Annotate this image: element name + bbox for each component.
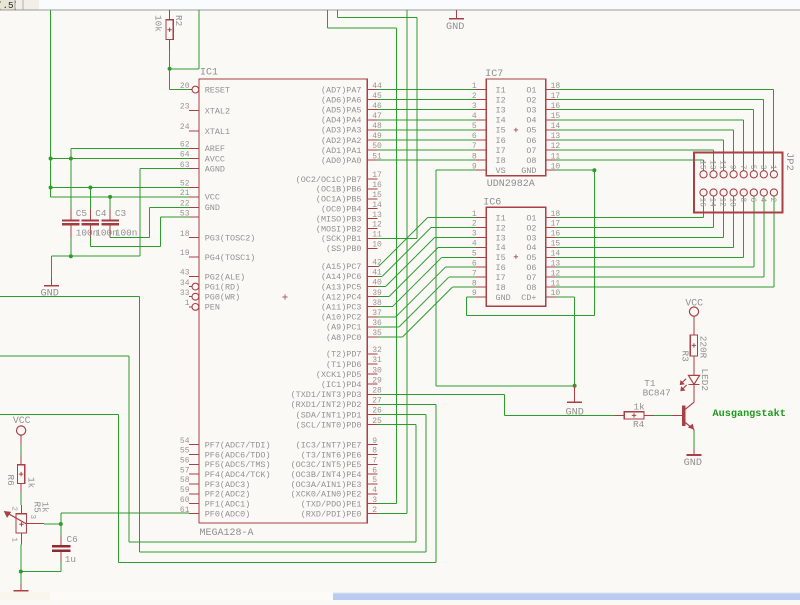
resistor R4 1k: [615, 414, 625, 416]
svg-text:(A15)PC7: (A15)PC7: [321, 262, 362, 272]
svg-text:(AD1)PA1: (AD1)PA1: [321, 146, 362, 156]
connector JP2 box: [694, 153, 782, 213]
wire VCC row52 horizontal: [51, 187, 189, 189]
transistor T1 BC847: [693, 390, 695, 402]
svg-text:45: 45: [372, 92, 382, 101]
svg-text:8: 8: [472, 152, 477, 161]
svg-text:18: 18: [551, 210, 561, 219]
svg-text:R6: R6: [5, 475, 16, 487]
svg-text:6: 6: [472, 259, 477, 268]
svg-text:63: 63: [180, 161, 190, 170]
svg-text:CD+: CD+: [521, 293, 536, 303]
R5 adjust arrow: [8, 514, 26, 524]
IC IC1 MEGA128-A box: [199, 79, 367, 523]
svg-text:18: 18: [551, 82, 561, 91]
svg-text:(OC0)PB4: (OC0)PB4: [321, 205, 362, 215]
svg-text:GND: GND: [41, 289, 59, 300]
svg-text:Ausgangstakt: Ausgangstakt: [713, 408, 786, 420]
svg-text:IC1: IC1: [200, 68, 218, 79]
svg-text:10k: 10k: [153, 15, 164, 32]
wire AGND to ground rail: [140, 168, 189, 170]
svg-text:3: 3: [758, 165, 766, 170]
svg-text:8: 8: [372, 447, 377, 456]
wire T1 emitter to GND: [693, 432, 695, 449]
IC IC6 UDN2982A box: [486, 207, 545, 306]
svg-text:42: 42: [372, 259, 382, 268]
svg-text:16: 16: [551, 102, 561, 111]
capacitor C4 100n: [89, 209, 91, 220]
svg-text:PG0(WR): PG0(WR): [205, 293, 240, 303]
svg-text:11: 11: [718, 160, 726, 170]
svg-text:7: 7: [472, 269, 477, 278]
wire CD+ to mid GND: [556, 296, 575, 298]
svg-text:44: 44: [372, 82, 382, 91]
svg-text:10: 10: [728, 198, 736, 208]
svg-text:(XCK0/AIN0)PE2: (XCK0/AIN0)PE2: [291, 490, 362, 500]
svg-text:35: 35: [372, 329, 382, 338]
svg-text:(SDA/INT1)PD1: (SDA/INT1)PD1: [296, 410, 362, 420]
svg-text:(TXD/PDO)PE1: (TXD/PDO)PE1: [301, 500, 362, 510]
wire PC bus fan to IC6 inputs: [377, 265, 379, 267]
capacitor C3 100n: [109, 209, 111, 220]
svg-text:48: 48: [372, 122, 382, 131]
R5 wiper pin: [27, 523, 44, 525]
wire C6 bottom to GND: [60, 561, 62, 571]
svg-text:I8: I8: [496, 156, 506, 166]
wire GND pin22 jog to C3 bottom: [150, 206, 189, 208]
svg-text:XTAL2: XTAL2: [205, 106, 230, 116]
svg-text:GND: GND: [684, 458, 702, 469]
svg-text:28: 28: [372, 387, 382, 396]
svg-text:I7: I7: [496, 146, 506, 156]
svg-text:16: 16: [551, 230, 561, 239]
svg-text:(XCK1)PD5: (XCK1)PD5: [316, 370, 362, 380]
svg-text:(OC3A/AIN1)PE3: (OC3A/AIN1)PE3: [291, 480, 362, 490]
svg-text:36: 36: [372, 319, 382, 328]
svg-text:17: 17: [551, 92, 561, 101]
svg-text:15: 15: [372, 191, 382, 200]
svg-text:23: 23: [180, 103, 190, 112]
svg-text:3: 3: [372, 496, 377, 505]
svg-text:O6: O6: [526, 263, 536, 273]
wire VCC rail vertical from top: [50, 10, 52, 197]
svg-text:(T3/INT6)PE6: (T3/INT6)PE6: [301, 450, 362, 460]
svg-text:(A12)PC4: (A12)PC4: [321, 292, 362, 302]
ground below T1: [693, 448, 695, 455]
svg-text:VCC: VCC: [13, 415, 31, 426]
svg-text:I7: I7: [496, 273, 506, 283]
svg-text:16: 16: [698, 198, 706, 208]
svg-text:GND: GND: [496, 293, 511, 303]
svg-text:PG1(RD): PG1(RD): [205, 282, 240, 292]
svg-text:I5: I5: [496, 253, 506, 263]
svg-text:C4: C4: [95, 208, 107, 219]
svg-text:GND: GND: [446, 22, 464, 33]
svg-text:1k: 1k: [40, 502, 51, 514]
svg-text:13: 13: [551, 259, 561, 268]
svg-text:R4: R4: [633, 419, 645, 430]
svg-text:O7: O7: [526, 146, 536, 156]
svg-text:PF5(ADC5/TMS): PF5(ADC5/TMS): [205, 460, 271, 470]
svg-text:1: 1: [185, 299, 190, 308]
svg-text:7: 7: [372, 457, 377, 466]
svg-text:R2: R2: [173, 15, 184, 26]
svg-text:O5: O5: [526, 126, 536, 136]
node IC7 GND junction: [592, 168, 596, 172]
svg-text:26: 26: [372, 407, 382, 416]
svg-text:(SS)PB0: (SS)PB0: [326, 244, 361, 254]
svg-text:I2: I2: [496, 223, 506, 233]
bottom strip: [0, 592, 800, 600]
svg-text:R3: R3: [679, 351, 690, 363]
wire pin53 jog to C4 bottom: [160, 216, 189, 218]
node RESET junction: [168, 67, 172, 71]
svg-text:O4: O4: [526, 243, 536, 253]
svg-text:1: 1: [472, 210, 477, 219]
wire PE1 net to top: [377, 503, 396, 505]
resistor R2 10k: [169, 10, 171, 20]
svg-text:8: 8: [472, 279, 477, 288]
svg-text:14: 14: [551, 250, 561, 259]
svg-text:27: 27: [372, 397, 382, 406]
svg-text:I3: I3: [496, 106, 506, 116]
svg-text:51: 51: [372, 152, 382, 161]
svg-text:6: 6: [372, 466, 377, 475]
svg-text:(TXD1/INT3)PD3: (TXD1/INT3)PD3: [291, 390, 362, 400]
svg-text:41: 41: [372, 269, 382, 278]
svg-text:(A8)PC0: (A8)PC0: [326, 333, 361, 343]
svg-text:220R: 220R: [697, 336, 708, 359]
svg-text:4: 4: [472, 240, 477, 249]
svg-text:(T2)PD7: (T2)PD7: [326, 350, 361, 360]
toolbar bottom edge line: [0, 9, 800, 11]
svg-text:2: 2: [768, 198, 776, 203]
svg-text:57: 57: [180, 466, 190, 475]
wire C5 top drop: [70, 159, 72, 210]
svg-text:12: 12: [372, 221, 382, 230]
svg-text:(AD2)PA2: (AD2)PA2: [321, 136, 362, 146]
wire IC7 O8 to JP2 pin15: [556, 159, 704, 161]
LED2 emission arrows: [680, 379, 686, 385]
wire IC7 outputs to JP2 top pins: [556, 89, 774, 91]
svg-text:13: 13: [372, 211, 382, 220]
svg-text:9: 9: [472, 289, 477, 298]
resistor R6 1k: [20, 455, 22, 465]
svg-text:40: 40: [372, 279, 382, 288]
svg-text:46: 46: [372, 102, 382, 111]
svg-text:O1: O1: [526, 85, 536, 95]
wire PD2 loop to left edge: [377, 403, 436, 405]
svg-text:PF2(ADC2): PF2(ADC2): [205, 490, 251, 500]
svg-text:O1: O1: [526, 213, 536, 223]
svg-text:PF4(ADC4/TCK): PF4(ADC4/TCK): [205, 470, 271, 480]
capacitor C5 100n: [70, 209, 72, 220]
wire R5 pin1 down: [20, 544, 22, 571]
wire VCC to R6: [20, 445, 22, 455]
svg-text:(OC1B)PB6: (OC1B)PB6: [316, 185, 362, 195]
svg-text:(A10)PC2: (A10)PC2: [321, 313, 362, 323]
svg-text:(IC1)PD4: (IC1)PD4: [321, 380, 362, 390]
svg-text:16: 16: [372, 181, 382, 190]
IC IC7 UDN2982A box: [486, 79, 545, 176]
IC1 left pins: [189, 89, 192, 91]
ground mid below IC6: [574, 386, 576, 403]
svg-text:38: 38: [372, 299, 382, 308]
wire junction to GND symbol: [20, 572, 22, 585]
svg-text:3: 3: [472, 230, 477, 239]
wire PD0 loop to left edge: [377, 424, 415, 426]
svg-text:60: 60: [180, 496, 190, 505]
svg-text:(RXD1/INT2)PD2: (RXD1/INT2)PD2: [291, 400, 362, 410]
svg-text:(A14)PC6: (A14)PC6: [321, 272, 362, 282]
wire PB1 SCK net to top: [377, 237, 417, 239]
ground bottom left: [20, 584, 22, 591]
svg-text:53: 53: [180, 209, 190, 218]
wire R6 to R5: [20, 493, 22, 505]
svg-text:2: 2: [10, 507, 18, 512]
svg-text:4: 4: [372, 486, 377, 495]
svg-text:2: 2: [472, 92, 477, 101]
svg-text:10: 10: [372, 241, 382, 250]
svg-text:7: 7: [738, 165, 746, 170]
wire AREF jog: [71, 147, 189, 149]
svg-text:2: 2: [372, 506, 377, 515]
svg-text:(SCL/INT0)PD0: (SCL/INT0)PD0: [296, 420, 362, 430]
svg-text:I1: I1: [496, 213, 506, 223]
svg-text:11: 11: [551, 279, 561, 288]
svg-text:(AD3)PA3: (AD3)PA3: [321, 126, 362, 136]
node VCC junctions: [49, 157, 53, 161]
svg-text:(AD0)PA0: (AD0)PA0: [321, 156, 362, 166]
svg-text:11: 11: [551, 152, 561, 161]
svg-text:24: 24: [180, 123, 190, 132]
svg-text:10: 10: [551, 162, 561, 171]
svg-text:14: 14: [372, 201, 382, 210]
svg-text:(T1)PD6: (T1)PD6: [326, 360, 361, 370]
svg-text:15: 15: [551, 112, 561, 121]
svg-text:62: 62: [180, 141, 190, 150]
svg-text:100n: 100n: [115, 228, 138, 239]
toolbar fragment top-left: [0, 0, 800, 10]
wire IC6 GND loop to IC7 GND: [466, 296, 476, 298]
svg-text:PG3(TOSC2): PG3(TOSC2): [205, 234, 256, 244]
svg-text:3: 3: [28, 515, 36, 520]
svg-text:AREF: AREF: [205, 144, 225, 154]
svg-text:59: 59: [180, 486, 190, 495]
svg-text:50: 50: [372, 142, 382, 151]
svg-text:11: 11: [372, 231, 382, 240]
potentiometer R5 1k: [20, 505, 22, 514]
svg-text:61: 61: [180, 506, 190, 515]
svg-text:(SCK)PB1: (SCK)PB1: [321, 234, 362, 244]
wire PD3 to R4 base net: [377, 393, 504, 395]
wire C4 bottom stub: [89, 237, 91, 246]
svg-text:GND: GND: [205, 203, 220, 213]
svg-text:13: 13: [551, 132, 561, 141]
svg-text:C6: C6: [67, 534, 79, 545]
svg-text:34: 34: [180, 279, 190, 288]
svg-text:13: 13: [708, 160, 716, 170]
svg-text:O8: O8: [526, 283, 536, 293]
svg-text:5: 5: [748, 165, 756, 170]
svg-text:39: 39: [372, 289, 382, 298]
svg-text:PF6(ADC6/TDO): PF6(ADC6/TDO): [205, 450, 271, 460]
wire R4 to T1 base: [654, 414, 673, 416]
svg-text:I6: I6: [496, 263, 506, 273]
wire PE0 net to top: [377, 513, 407, 515]
svg-text:32: 32: [372, 346, 382, 355]
svg-text:I1: I1: [496, 85, 506, 95]
svg-text:8: 8: [738, 198, 746, 203]
svg-text:31: 31: [372, 356, 382, 365]
wire PA0-PA7 bus to IC7 inputs: [377, 89, 476, 91]
svg-text:7: 7: [472, 142, 477, 151]
svg-text:10: 10: [551, 289, 561, 298]
svg-text:O8: O8: [526, 156, 536, 166]
wire ground rail drop to GND symbol: [51, 256, 53, 278]
svg-text:C5: C5: [76, 208, 88, 219]
svg-text:AVCC: AVCC: [205, 154, 225, 164]
svg-text:19: 19: [180, 249, 190, 258]
svg-text:VS: VS: [496, 166, 506, 176]
svg-text:IC7: IC7: [485, 69, 503, 80]
svg-text:PF1(ADC1): PF1(ADC1): [205, 500, 251, 510]
svg-text:1: 1: [10, 538, 18, 543]
svg-text:14: 14: [551, 122, 561, 131]
svg-text:(A11)PC3: (A11)PC3: [321, 303, 362, 313]
svg-text:(OC3B/INT4)PE4: (OC3B/INT4)PE4: [291, 470, 362, 480]
svg-text:(AD5)PA5: (AD5)PA5: [321, 106, 362, 116]
capacitor C6 1u: [60, 535, 62, 545]
svg-text:O7: O7: [526, 273, 536, 283]
svg-text:49: 49: [372, 132, 382, 141]
svg-text:I5: I5: [496, 126, 506, 136]
svg-text:PF7(ADC7/TDI): PF7(ADC7/TDI): [205, 440, 271, 450]
svg-text:C3: C3: [115, 208, 127, 219]
svg-text:15: 15: [698, 160, 706, 170]
svg-text:54: 54: [180, 437, 190, 446]
node wiper junction: [59, 522, 63, 526]
svg-text:VCC: VCC: [205, 193, 220, 203]
svg-text:(A9)PC1: (A9)PC1: [326, 323, 361, 333]
svg-text:BC847: BC847: [643, 388, 671, 399]
svg-text:O3: O3: [526, 233, 536, 243]
svg-text:21: 21: [180, 189, 190, 198]
svg-text:O5: O5: [526, 253, 536, 263]
svg-text:1k: 1k: [634, 402, 646, 413]
svg-text:(OC1A)PB5: (OC1A)PB5: [316, 195, 362, 205]
svg-text:(AD4)PA4: (AD4)PA4: [321, 116, 362, 126]
svg-text:52: 52: [180, 180, 190, 189]
svg-text:LED2: LED2: [699, 369, 710, 392]
svg-text:56: 56: [180, 457, 190, 466]
wire IC6 outputs to JP2 bottom pins: [556, 217, 704, 219]
svg-text:MEGA128-A: MEGA128-A: [200, 528, 254, 539]
wire RESET net from R2: [169, 49, 171, 89]
svg-text:(AD6)PA6: (AD6)PA6: [321, 96, 362, 106]
svg-text:PF3(ADC3): PF3(ADC3): [205, 480, 251, 490]
svg-text:20: 20: [180, 82, 190, 91]
svg-text:I4: I4: [496, 243, 506, 253]
svg-text:58: 58: [180, 476, 190, 485]
svg-text:IC6: IC6: [483, 198, 501, 209]
svg-text:5: 5: [472, 122, 477, 131]
svg-text:(OC3C/INT5)PE5: (OC3C/INT5)PE5: [291, 460, 362, 470]
svg-text:O2: O2: [526, 223, 536, 233]
svg-text:12: 12: [718, 198, 726, 208]
node ground junction C5: [69, 254, 73, 258]
svg-text:PG4(TOSC1): PG4(TOSC1): [205, 253, 256, 263]
svg-text:9: 9: [472, 162, 477, 171]
svg-text:6: 6: [748, 198, 756, 203]
node mid GND junction: [573, 384, 577, 388]
svg-text:12: 12: [551, 269, 561, 278]
svg-text:33: 33: [180, 289, 190, 298]
wire IC7 GND pin10: [556, 169, 595, 171]
wire IC7 VS down the middle: [436, 169, 476, 171]
svg-text:XTAL1: XTAL1: [205, 127, 230, 137]
svg-text:PEN: PEN: [205, 303, 220, 313]
svg-text:47: 47: [372, 112, 382, 121]
svg-text:O2: O2: [526, 96, 536, 106]
svg-text:RESET: RESET: [205, 85, 230, 95]
svg-text:(MISO)PB3: (MISO)PB3: [316, 214, 362, 224]
svg-text:1k: 1k: [25, 477, 36, 489]
wire ADC pot wiper to PF0: [61, 512, 189, 514]
svg-text:6: 6: [472, 132, 477, 141]
svg-text:37: 37: [372, 309, 382, 318]
svg-text:55: 55: [180, 447, 190, 456]
svg-text:1: 1: [768, 165, 776, 170]
svg-text:UDN2982A: UDN2982A: [487, 179, 535, 190]
IC7 pins: [476, 89, 486, 91]
svg-text:5: 5: [372, 476, 377, 485]
svg-text:17: 17: [372, 171, 382, 180]
svg-text:3: 3: [472, 102, 477, 111]
node C6 GND junction: [19, 570, 23, 574]
svg-text:(MOSI)PB2: (MOSI)PB2: [316, 224, 362, 234]
scrollbar blue bar: [333, 593, 800, 600]
LED LED2: [688, 375, 699, 384]
svg-text:I3: I3: [496, 233, 506, 243]
svg-text:I4: I4: [496, 116, 506, 126]
svg-text:O6: O6: [526, 136, 536, 146]
svg-text:25: 25: [372, 417, 382, 426]
svg-text:30: 30: [372, 366, 382, 375]
resistor R3 220R: [693, 316, 695, 335]
svg-text:GND: GND: [566, 408, 584, 419]
svg-text:(AD7)PA7: (AD7)PA7: [321, 85, 362, 95]
svg-text:4: 4: [758, 198, 766, 203]
svg-text:9: 9: [728, 165, 736, 170]
svg-text:15: 15: [551, 240, 561, 249]
svg-text:12: 12: [551, 142, 561, 151]
svg-text:O4: O4: [526, 116, 536, 126]
JP2 pin circles: [700, 171, 707, 178]
svg-text:PF0(ADC0): PF0(ADC0): [205, 509, 251, 519]
svg-text:22: 22: [180, 200, 190, 209]
svg-text:(RXD/PDI)PE0: (RXD/PDI)PE0: [301, 509, 362, 519]
svg-text:29: 29: [372, 376, 382, 385]
svg-text:4: 4: [472, 112, 477, 121]
wire VCC row21 horizontal: [51, 196, 189, 198]
svg-text:I8: I8: [496, 283, 506, 293]
svg-text:14: 14: [708, 198, 716, 208]
svg-text:I6: I6: [496, 136, 506, 146]
svg-text:(OC2/OC1C)PB7: (OC2/OC1C)PB7: [296, 175, 362, 185]
svg-text:O3: O3: [526, 106, 536, 116]
wire mid GND horizontal: [436, 385, 575, 387]
